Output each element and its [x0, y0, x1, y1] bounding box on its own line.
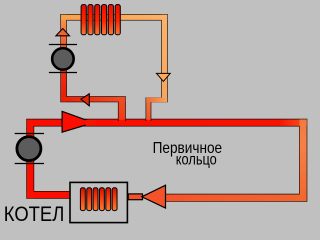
arrow: big return arrow into boiler [142, 185, 166, 208]
radiator coil (secondary heat emitter) [81, 5, 120, 35]
node: supply riser joins primary [119, 120, 126, 122]
wire: secondary loop outline (riser, supply run, pump leg, radiator run, downcomer, jog, drop) [61, 15, 167, 122]
label: КОТЕЛ [4, 202, 65, 226]
wire: radiator run fill [61, 15, 167, 20]
boiler box [70, 182, 127, 222]
wire: primary ring outline (top pipe, right downcomer, bottom return, left riser, boiler inlet) [27, 119, 307, 201]
svg-text:КОТЕЛ: КОТЕЛ [4, 202, 65, 226]
wire: primary left riser fill [27, 119, 34, 198]
wire: boiler inlet fill [27, 192, 70, 199]
wire: drop fill [146, 98, 151, 121]
arrow: big flow arrow on primary top pipe [62, 111, 95, 132]
node: drop joins primary [146, 120, 150, 122]
wire: boiler outlet neck [128, 194, 142, 200]
wire: jog fill [146, 98, 167, 103]
svg-text:кольцо: кольцо [176, 152, 217, 169]
boiler heat exchanger coil [80, 188, 117, 211]
wire: supply riser fill [119, 97, 126, 121]
pump P1 (secondary circulator) [49, 45, 77, 73]
wire: primary right downcomer fill [300, 119, 307, 201]
pump P2 (primary circulator) [15, 134, 44, 164]
wire: primary top pipe fill [27, 119, 307, 126]
arrow: left arrow on secondary supply [81, 94, 89, 106]
wire: supply run fill [61, 97, 125, 102]
wire: pump leg fill [61, 15, 66, 102]
arrow: up arrow above pump P1 [56, 29, 70, 36]
wire: right downcomer fill [162, 15, 167, 102]
label: Первичное кольцо [153, 140, 223, 169]
arrow: down arrow on secondary downcomer [157, 73, 171, 81]
wire: primary bottom return fill [164, 194, 300, 201]
